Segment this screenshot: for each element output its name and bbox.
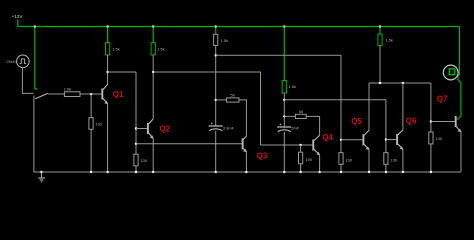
wire green branch to R4 <box>152 27 154 43</box>
wire R1 to Q1 base <box>80 93 101 95</box>
wire Q7 emitter to ground rail <box>460 132 462 172</box>
resistor R3 1.5k <box>106 43 120 55</box>
svg-text:Q4: Q4 <box>322 133 333 142</box>
node Q5 base junction <box>340 139 342 141</box>
wire Q1 collector to Q2 base column <box>108 71 136 73</box>
resistor R1 1.0k <box>64 86 80 96</box>
svg-text:2mF: 2mF <box>291 126 300 131</box>
svg-text:Q6: Q6 <box>406 117 417 126</box>
svg-text:Q7: Q7 <box>437 95 448 104</box>
wire R2 to ground rail <box>90 129 92 172</box>
resistor R4 1.5k <box>151 43 165 55</box>
resistor R2 130 <box>89 118 103 130</box>
svg-text:50: 50 <box>231 93 236 98</box>
ground GND <box>38 172 45 182</box>
wire junction to R10 <box>284 115 295 117</box>
wire branch to Q6 base column <box>284 99 386 101</box>
wire green branch to R5 <box>215 27 217 35</box>
wire green branch to R12 <box>379 27 381 35</box>
wire Q7 base <box>431 121 455 123</box>
svg-text:Q2: Q2 <box>160 124 171 133</box>
probe P1 <box>443 65 458 80</box>
svg-text:130: 130 <box>390 158 397 163</box>
svg-text:1.5k: 1.5k <box>288 84 296 89</box>
wire base junction to R2 <box>90 94 92 118</box>
node Q1 collector junction <box>106 71 108 73</box>
node Q2 collector junction <box>152 71 154 73</box>
transistor Q7 <box>456 116 462 132</box>
wire R4 to Q2 collector <box>152 55 154 119</box>
svg-text:100: 100 <box>306 157 313 162</box>
resistor R9 1.5k <box>282 81 296 93</box>
node R12 bus junction <box>379 82 381 84</box>
node Q7 base junction <box>430 120 432 122</box>
node rail junctions <box>90 171 432 173</box>
wire R7 to Q3 collector <box>239 100 246 136</box>
resistor R6 130 <box>134 154 148 166</box>
node Q2 base junction <box>135 127 137 129</box>
wire collector bus <box>369 82 431 84</box>
transistor Q3 <box>243 136 247 152</box>
resistor R8 100 <box>299 152 313 164</box>
svg-text:1.5k: 1.5k <box>221 38 229 43</box>
svg-text:3.3mF: 3.3mF <box>223 126 235 131</box>
svg-text:50: 50 <box>299 109 304 114</box>
wire R12 to collector bus <box>379 46 381 83</box>
wire R11 to ground rail <box>340 164 342 172</box>
wire Q2 collector to Q4 base column <box>153 72 260 145</box>
wire Q5 base column <box>340 55 342 152</box>
wire ground rail <box>34 171 461 173</box>
capacitor C1 3.3mF <box>209 122 223 130</box>
transistor Q4 <box>313 135 320 155</box>
capacitor C2 2mF <box>277 123 291 131</box>
wire Q5 base <box>341 139 363 141</box>
wire Q2 base column <box>135 72 137 154</box>
wire Q6 collector up <box>402 83 404 130</box>
wire Q5 emitter to ground rail <box>368 149 370 172</box>
wire green branch to R3 <box>107 27 109 43</box>
svg-text:130: 130 <box>435 136 442 141</box>
wire C2 to ground rail <box>283 132 285 172</box>
transistor Q1 <box>102 84 108 104</box>
node R8 junction <box>299 144 301 146</box>
wire branch to Q5 base column <box>216 54 341 56</box>
wire +12V stub <box>17 20 19 27</box>
svg-text:+12V: +12V <box>12 14 24 19</box>
wire junction to R8 <box>300 145 302 152</box>
svg-text:Q5: Q5 <box>351 117 362 126</box>
resistor R11 130 <box>339 153 353 165</box>
wire green branch to switch <box>35 27 38 90</box>
transistor Q5 <box>363 130 369 150</box>
wire R5 down to C1 <box>215 45 217 126</box>
svg-text:130: 130 <box>95 122 102 127</box>
resistor R13 130 <box>384 153 398 165</box>
switch S1 lever <box>35 93 48 99</box>
wire Q6 base column <box>385 100 387 153</box>
wire R9 down to C2 <box>283 93 285 127</box>
resistor R5 1.5k <box>214 34 228 45</box>
wire junction to Q3 base <box>136 143 242 145</box>
wire junction to R7 <box>216 99 227 101</box>
node R10 junction <box>283 115 285 117</box>
wire Q3 emitter to ground rail <box>245 152 247 172</box>
node R9 branch junction <box>283 99 285 101</box>
wire R14 to ground rail <box>430 144 432 172</box>
node Q1 base junction <box>90 93 92 95</box>
wire source to switch <box>22 68 33 94</box>
wire switch to R1 <box>48 93 64 95</box>
node top rail junctions <box>34 25 382 27</box>
wire Q6 base <box>386 139 396 141</box>
wire green branch to R9 <box>283 27 285 81</box>
node Q3 base wire junction <box>135 143 137 145</box>
wire switch down to ground rail <box>33 96 35 173</box>
wire right rail drop to probe and Q7 <box>458 27 461 117</box>
wire Q6 emitter to ground rail <box>402 149 404 172</box>
resistor R10 50 <box>295 109 306 118</box>
wire Q7 base column <box>430 83 432 132</box>
wire R3 to Q1 collector <box>107 55 109 85</box>
node Q6 base junction <box>385 138 387 140</box>
wire R10 to Q4 collector <box>306 116 319 135</box>
svg-text:1.5k: 1.5k <box>112 46 120 51</box>
wire R13 to ground rail <box>385 164 387 172</box>
resistor R14 130 <box>429 132 443 144</box>
wire Q4 emitter to ground rail <box>319 155 321 172</box>
svg-text:1.5k: 1.5k <box>385 37 393 42</box>
svg-text:1.5k: 1.5k <box>157 46 165 51</box>
wire R8 to ground rail <box>300 164 302 172</box>
svg-text:1.0k: 1.0k <box>64 86 72 91</box>
wire Q2 base <box>136 128 147 130</box>
transistor Q2 <box>148 119 154 139</box>
node ground junction <box>40 171 42 173</box>
resistor R7 50 <box>227 93 239 102</box>
wire Q2 emitter to ground rail <box>152 138 154 172</box>
wire Q1 emitter to ground rail <box>107 104 109 172</box>
wire to Q4 base <box>261 144 313 146</box>
source V1 26kHz <box>7 55 30 68</box>
svg-text:Q3: Q3 <box>257 151 268 160</box>
node R5 branch junction <box>215 54 217 56</box>
resistor R12 1.5k <box>378 34 393 46</box>
wire Q5 collector up <box>368 83 370 130</box>
wire R6 to ground rail <box>135 166 137 172</box>
svg-text:26kHz: 26kHz <box>7 60 18 64</box>
node R7 junction <box>215 99 217 101</box>
node Q6 collector junction <box>402 82 404 84</box>
transistor Q6 <box>397 130 403 150</box>
svg-text:130: 130 <box>140 158 147 163</box>
svg-text:130: 130 <box>345 158 352 163</box>
wire +12V top rail <box>18 26 460 28</box>
svg-text:Q1: Q1 <box>113 90 124 99</box>
wire C1 to ground rail <box>215 131 217 172</box>
